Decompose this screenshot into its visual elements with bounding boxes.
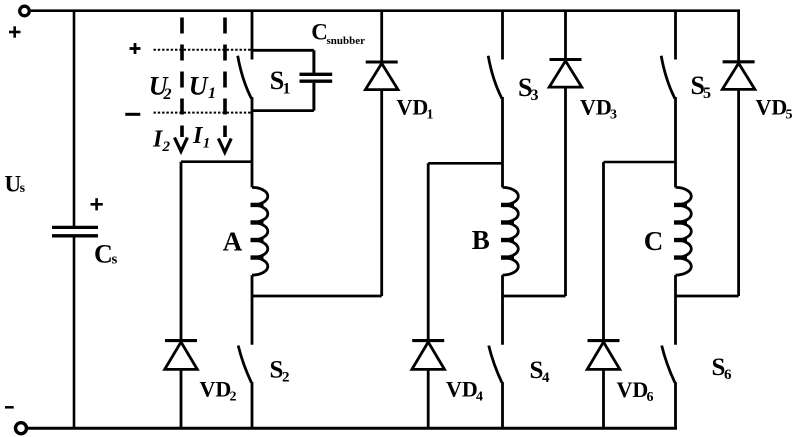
svg-text:3: 3	[610, 108, 617, 123]
svg-text:U: U	[189, 72, 209, 101]
svg-text:5: 5	[703, 85, 711, 102]
svg-text:4: 4	[476, 390, 483, 405]
svg-text:s: s	[20, 181, 26, 196]
svg-text:1: 1	[427, 108, 434, 123]
svg-text:5: 5	[786, 108, 793, 123]
svg-text:3: 3	[531, 87, 539, 104]
svg-text:6: 6	[647, 390, 654, 405]
svg-text:A: A	[223, 226, 243, 256]
svg-text:1: 1	[203, 136, 211, 152]
svg-text:2: 2	[282, 370, 290, 386]
svg-text:C: C	[94, 239, 113, 268]
svg-text:4: 4	[542, 370, 550, 386]
svg-text:2: 2	[163, 86, 172, 103]
svg-text:VD: VD	[446, 377, 478, 402]
svg-text:1: 1	[208, 85, 216, 102]
svg-text:VD: VD	[580, 95, 612, 120]
svg-text:1: 1	[283, 81, 291, 98]
svg-text:2: 2	[162, 139, 171, 155]
svg-text:VD: VD	[617, 377, 649, 402]
svg-text:C: C	[644, 226, 664, 256]
svg-text:6: 6	[724, 367, 732, 383]
svg-text:B: B	[472, 225, 490, 255]
svg-text:snubber: snubber	[327, 35, 366, 47]
svg-text:VD: VD	[756, 95, 788, 120]
svg-text:2: 2	[230, 390, 237, 405]
svg-text:VD: VD	[397, 95, 429, 120]
svg-text:s: s	[112, 252, 118, 268]
svg-text:C: C	[311, 19, 328, 44]
svg-text:VD: VD	[200, 377, 232, 402]
